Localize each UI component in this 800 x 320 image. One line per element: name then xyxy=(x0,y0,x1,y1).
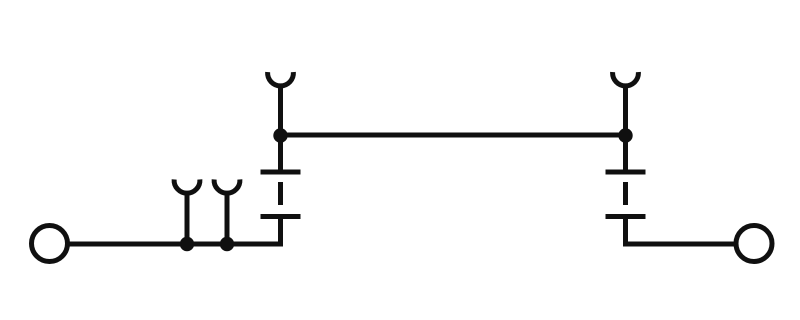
test socket TS3 stem xyxy=(278,85,283,136)
wire: left terminal to left riser xyxy=(68,242,284,247)
junction dot A1 (left test socket) xyxy=(180,237,194,251)
wire: right riser to right terminal xyxy=(623,242,736,247)
disconnect point D2 lower bar xyxy=(606,214,646,219)
right terminal circle (conductor connection point) xyxy=(736,226,772,262)
left terminal circle (conductor connection point) xyxy=(32,226,68,262)
test socket TS4 stem xyxy=(623,85,628,136)
test socket TS1 stem xyxy=(185,192,190,244)
disconnect point D1 upper bar xyxy=(261,170,301,175)
disconnect point D1 lower bar xyxy=(261,214,301,219)
disconnect point D2 middle dash xyxy=(623,182,628,205)
junction dot A2 (second test socket) xyxy=(220,237,234,251)
wire: left riser upper segment xyxy=(278,135,283,172)
disconnect point D2 upper bar xyxy=(606,170,646,175)
wire: right riser lower segment xyxy=(623,217,628,245)
test socket TS3 arc xyxy=(268,72,294,86)
wire: cross-connection bus xyxy=(281,133,626,138)
disconnect point D1 middle dash xyxy=(278,182,283,205)
test socket TS1 arc xyxy=(174,179,200,193)
wire: left riser lower segment xyxy=(278,217,283,245)
test socket TS2 stem xyxy=(225,192,230,244)
junction node B1 (left bus junction) xyxy=(273,128,287,142)
test socket TS4 arc xyxy=(613,72,639,86)
test socket TS2 arc xyxy=(214,179,240,193)
junction node B2 (right bus junction) xyxy=(618,128,632,142)
wire: right riser upper segment xyxy=(623,135,628,172)
